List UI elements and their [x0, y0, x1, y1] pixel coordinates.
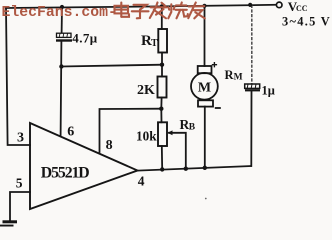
svg-text:B: B	[189, 123, 196, 133]
svg-text:3: 3	[17, 130, 24, 145]
svg-text:4.7μ: 4.7μ	[72, 31, 97, 46]
wire pin 5 to ground	[10, 192, 30, 220]
resistor RT	[141, 29, 167, 53]
svg-text:M: M	[198, 81, 211, 96]
wire RB wiper	[169, 133, 186, 169]
wire node A to RT/2K junction	[61, 65, 162, 67]
node RT/2K	[160, 62, 164, 66]
svg-text:D5521D: D5521D	[41, 164, 90, 181]
node top motor	[202, 4, 206, 8]
node B 2K/10k/pin8	[159, 107, 163, 111]
wire 2K bottom lead to node B	[160, 98, 162, 109]
wire C1 bottom to node A	[60, 42, 63, 136]
char zi	[132, 5, 149, 18]
svg-text:2K: 2K	[137, 83, 155, 98]
node top C2	[248, 3, 252, 7]
minus sign motor	[215, 107, 221, 109]
wire output rail pin 4	[138, 166, 252, 171]
wire RT top lead	[161, 6, 163, 29]
node A	[59, 64, 63, 68]
svg-text:4: 4	[138, 173, 145, 188]
wire top rail Vcc	[6, 5, 276, 8]
wire RT bottom lead	[161, 53, 163, 77]
svg-text:ElecFans.com-: ElecFans.com-	[2, 5, 117, 21]
wire left rail to pin 3	[6, 8, 30, 145]
svg-text:CC: CC	[296, 4, 308, 13]
node output 10k	[160, 167, 164, 171]
wire 10k bottom lead	[161, 146, 163, 169]
char you	[188, 3, 205, 19]
svg-text:5: 5	[16, 175, 23, 190]
node output motor	[203, 166, 207, 170]
wire motor bottom lead	[204, 107, 206, 168]
svg-text:3~4.5 V: 3~4.5 V	[282, 14, 331, 28]
resistor 2K	[137, 77, 167, 98]
svg-text:8: 8	[106, 138, 113, 153]
wire node B to pin 8	[100, 109, 162, 152]
svg-text:1μ: 1μ	[262, 83, 275, 97]
potentiometer RB 10k	[136, 117, 196, 146]
terminal Vcc	[276, 0, 331, 28]
wire 10k top lead	[160, 109, 162, 123]
capacitor C1 4.7u	[56, 31, 98, 46]
node top C1	[60, 5, 64, 9]
wire capacitor C1 branch down to pin 6	[61, 7, 63, 33]
char shao	[168, 3, 188, 19]
ground	[0, 220, 17, 226]
svg-text:M: M	[234, 73, 243, 83]
scan speck	[205, 198, 207, 200]
wire capacitor C2 top lead	[251, 5, 253, 84]
char fa	[150, 3, 167, 19]
motor M	[191, 62, 243, 108]
op-amp U1 D5521D	[30, 123, 138, 209]
wire motor top lead	[204, 6, 206, 66]
svg-text:10k: 10k	[136, 129, 157, 144]
plus sign motor	[212, 62, 217, 67]
capacitor C2 1u	[245, 83, 275, 97]
svg-text:T: T	[151, 38, 158, 49]
watermark chinese characters drawn as strokes	[115, 3, 205, 19]
node output RB	[184, 167, 188, 171]
wire capacitor C2 bottom lead	[250, 91, 252, 166]
char dian	[115, 3, 130, 17]
node top RT	[160, 4, 164, 8]
svg-text:6: 6	[67, 124, 74, 139]
